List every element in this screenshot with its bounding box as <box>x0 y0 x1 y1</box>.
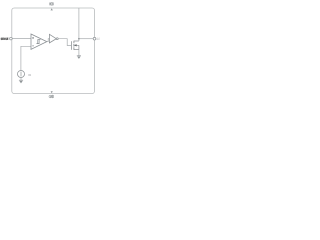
transistor M1 (NMOS) <box>71 41 79 50</box>
VDD supply pin arrow <box>51 8 53 10</box>
wire: comparator output to inverter input <box>47 39 50 42</box>
IC boundary box (top edge = VDD rail, bottom edge = GND rail) <box>12 8 95 94</box>
wire: MOSFET drain to VDD rail <box>78 8 80 41</box>
junction dot at drain/output tap <box>78 38 80 40</box>
comparator U1 (with hysteresis) <box>31 34 47 49</box>
ground (arrow style) below current source <box>19 80 23 83</box>
GND net label <box>49 95 54 98</box>
GND pin arrow <box>51 91 53 93</box>
svg-text:OUT: OUT <box>96 37 100 41</box>
VDD net label <box>49 3 53 6</box>
input terminal circle <box>10 37 13 40</box>
ground (arrow style) at MOSFET source <box>77 56 81 59</box>
output pin label OUT (clipped at edge) <box>96 37 101 41</box>
output terminal circle <box>93 37 96 40</box>
current source value label IB <box>28 73 31 77</box>
wire: output node (drain) to output pin <box>79 38 95 40</box>
wire: MOSFET source down to ground <box>78 50 80 56</box>
inverter U2 <box>49 34 58 43</box>
svg-text:IB: IB <box>28 73 31 77</box>
svg-text:SENSE: SENSE <box>1 37 9 41</box>
input pin label SENSE <box>1 37 9 41</box>
current source I1 <box>18 71 25 78</box>
wire: comparator - input from current source node <box>21 46 31 70</box>
wire: current source bottom lead <box>20 78 22 81</box>
wire: inverter output to MOSFET gate <box>58 39 71 46</box>
wire: input pin to comparator + input <box>11 38 31 40</box>
